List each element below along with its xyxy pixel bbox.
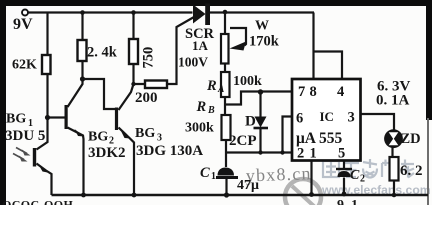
resistor RB 300k: [222, 115, 231, 140]
wire: top 9V rail: [28, 11, 314, 13]
svg-text:8: 8: [310, 84, 317, 100]
wire: pot drop from rail: [224, 13, 226, 35]
svg-text:IC: IC: [320, 109, 334, 124]
wire: 6.2 resistor to ground rail: [393, 181, 395, 196]
svg-text:2. 4k: 2. 4k: [87, 45, 118, 61]
capacitor C2 bottom plate: [338, 171, 351, 177]
resistor R 750: [129, 39, 138, 64]
node rail/BG3 emitter: [132, 193, 137, 198]
svg-text:C: C: [200, 165, 210, 181]
frame: top bar: [0, 0, 432, 6]
svg-text:3DK2: 3DK2: [88, 145, 126, 161]
node rail/6.2: [392, 193, 397, 198]
node rail/C2: [342, 192, 347, 197]
wire: C2 to ground rail: [343, 178, 345, 196]
wire: 62K drop from rail: [46, 13, 48, 56]
svg-text:5: 5: [338, 146, 345, 162]
wire: pin5 down to C2: [343, 161, 345, 169]
potentiometer W body: [221, 34, 229, 64]
svg-text:2CP: 2CP: [229, 133, 257, 149]
svg-text:300k: 300k: [185, 121, 214, 136]
watermark circle logo: [285, 179, 321, 215]
svg-text:6: 6: [296, 111, 303, 127]
wire: 2.4k drop from rail: [81, 13, 83, 41]
node rail/C1: [224, 192, 229, 197]
node rail/pot: [223, 10, 228, 15]
transistor BG1 light arrows: [13, 148, 27, 160]
lamp ZD: [384, 129, 403, 148]
svg-text:2: 2: [297, 146, 304, 162]
svg-text:OCOC-OOH: OCOC-OOH: [2, 198, 73, 206]
svg-text:1: 1: [310, 146, 317, 162]
svg-text:BG: BG: [6, 112, 26, 127]
svg-text:47μ: 47μ: [237, 178, 259, 193]
svg-text:μA 555: μA 555: [296, 130, 343, 147]
wire: pin1 down to ground rail: [310, 161, 312, 196]
node rail/750: [131, 10, 136, 15]
svg-text:3: 3: [348, 110, 355, 126]
transistor BG3 emitter arrowhead: [121, 131, 131, 139]
svg-text:1: 1: [211, 171, 216, 182]
potentiometer W wiper arrow: [230, 42, 247, 51]
svg-text:170k: 170k: [249, 34, 280, 50]
svg-text:62K: 62K: [12, 58, 37, 73]
svg-text:2: 2: [360, 174, 365, 185]
svg-text:W: W: [255, 19, 269, 34]
wire: 200 right end up to SCR gate: [167, 17, 194, 84]
transistor BG2 emitter arrowhead: [75, 129, 85, 137]
capacitor C1 bottom plate: [216, 176, 238, 179]
wire: pot wiper rheostat link: [230, 28, 246, 46]
svg-text:R: R: [206, 78, 217, 94]
node diode cathode/trigger: [258, 150, 262, 154]
node pin6 tie: [280, 150, 284, 154]
svg-text:R: R: [196, 99, 207, 115]
resistor 6.2: [390, 157, 399, 181]
wire: 300k bottom down to C1: [225, 140, 227, 167]
svg-text:A: A: [217, 85, 224, 95]
svg-text:ZD: ZD: [401, 131, 421, 147]
wire: C1 to ground rail: [225, 178, 227, 195]
svg-text:0. 1A: 0. 1A: [376, 93, 410, 109]
svg-text:200: 200: [135, 90, 158, 106]
wire: BG1 emitter to ground rail: [37, 164, 52, 196]
node 62K/BG2 base: [45, 115, 50, 120]
wire: 750 drop from rail: [132, 13, 134, 40]
svg-text:C: C: [350, 168, 360, 183]
wire: 2.4k bottom node, branch to BG3 base, BG2 collector: [68, 61, 116, 109]
wire: pin6 lead tie: [283, 117, 293, 153]
svg-text:9. 1: 9. 1: [337, 198, 358, 205]
wire: diode cathode down to trigger line: [259, 128, 261, 153]
resistor R 200: [145, 81, 167, 89]
SCR thyristor triangle: [193, 5, 206, 24]
node rail/2.4k: [80, 10, 85, 15]
svg-text:100V: 100V: [178, 55, 208, 70]
capacitor C1 top plate: [218, 168, 235, 176]
wire: 100k bottom jog to pin7 line: [225, 92, 292, 116]
wire: ground rail bottom: [52, 194, 429, 196]
transistor BG1 emitter arrowhead: [39, 165, 48, 173]
node rail/BG2 emitter: [81, 193, 86, 198]
svg-text:4: 4: [337, 84, 344, 100]
svg-text:3DG 130A: 3DG 130A: [136, 143, 203, 159]
watermark chinese glyph blocks: [323, 159, 414, 178]
diode D triangle: [255, 117, 267, 128]
svg-text:100k: 100k: [233, 74, 262, 89]
svg-text:3DU 5: 3DU 5: [5, 128, 45, 144]
svg-text:BG: BG: [88, 130, 108, 145]
node diode anode: [258, 89, 263, 94]
svg-text:D: D: [245, 114, 256, 130]
svg-text:750: 750: [141, 47, 157, 69]
wire: 750 bottom node to 200 resistor, BG3 collector diagonal: [119, 64, 146, 110]
resistor R 62K: [42, 55, 51, 74]
svg-text:3: 3: [157, 133, 162, 144]
node 750/200: [131, 82, 135, 86]
IC 555 box: [292, 79, 361, 161]
resistor R 2.4k: [78, 40, 87, 61]
transistor BG2 base bar: [65, 105, 68, 129]
svg-text:1A: 1A: [192, 38, 209, 53]
svg-text:6. 2: 6. 2: [400, 163, 423, 179]
wire: BG2 emitter to ground rail: [68, 128, 84, 196]
node 2.4k/BG2 collector: [80, 76, 85, 81]
capacitor C2 top plate: [336, 168, 352, 170]
wire: pin3 lead to lamp: [361, 114, 395, 131]
frame: right bar: [426, 0, 432, 120]
frame: left bar: [0, 0, 6, 205]
wire: diode branch down from pin7 line: [259, 92, 261, 117]
svg-text:7: 7: [298, 84, 305, 100]
terminal 9V: [22, 10, 28, 16]
wire: trigger node line to pin2: [226, 151, 292, 153]
wire: rail corner down to pin8: [312, 13, 314, 80]
wire: BG3 emitter to ground rail: [119, 128, 135, 196]
diode D cathode bar: [254, 127, 269, 130]
svg-text:B: B: [207, 105, 215, 116]
resistor RA 100k: [221, 72, 230, 97]
node rail/pin1: [309, 192, 314, 197]
transistor BG3 base bar: [115, 108, 118, 131]
transistor BG1 base bar: [33, 148, 36, 167]
SCR cathode bar: [205, 4, 210, 26]
wire: pot to 100k: [224, 64, 226, 73]
svg-text:BG: BG: [135, 126, 155, 141]
wire: branch to pin4: [314, 52, 343, 80]
wire: lamp bottom to 6.2 resistor: [391, 146, 393, 157]
wire: 62K bottom to base node, BG2 base, down to BG1: [37, 74, 65, 150]
svg-text:9V: 9V: [13, 16, 33, 33]
